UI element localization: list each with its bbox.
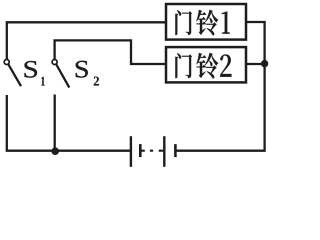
battery cell 2 long plate [163,136,165,167]
doorbell 1 box [166,4,246,40]
switch S1 pivot circle [4,60,9,65]
label 门 of 门铃1 [175,10,191,35]
label S of S2 [76,61,88,78]
label 门 of 门铃2 [175,53,191,78]
battery cell 1 short plate [139,144,142,157]
wire: doorbell 2 right stub to rail [246,63,265,65]
battery cell 1 long plate [130,136,132,167]
label 铃 of 门铃2 [196,53,218,78]
label digit 2 of 门铃2 [220,54,231,76]
junction node: doorbell 2 stub on right rail [261,60,268,67]
wire: S2 lower contact down to bottom wire [54,95,56,151]
battery dashed link (more cells) [141,150,163,152]
switch S2 blade (open) [56,64,69,87]
label S of S1 [25,61,38,78]
label subscript 2 of S2 [94,77,99,86]
battery cell 2 short plate [174,144,177,157]
doorbell 2 box [166,47,246,82]
wire: S2 branch up, across, down to doorbell 2 [55,40,167,64]
wire: S1 lower contact down to bottom-left corner, bottom wire to battery [7,95,130,151]
junction node: S2 branch on bottom wire [51,147,59,155]
label digit 1 of 门铃1 [222,12,230,34]
wire: left rail up from S1 and top wire to doorbell 1 [7,22,167,59]
switch S2 pivot circle [52,60,57,65]
switch S1 blade (open) [8,64,21,86]
label 铃 of 门铃1 [196,10,218,35]
label subscript 1 of S1 [41,77,45,86]
wire: doorbell 1 right to right rail, rail down, bottom wire to battery [176,22,264,151]
